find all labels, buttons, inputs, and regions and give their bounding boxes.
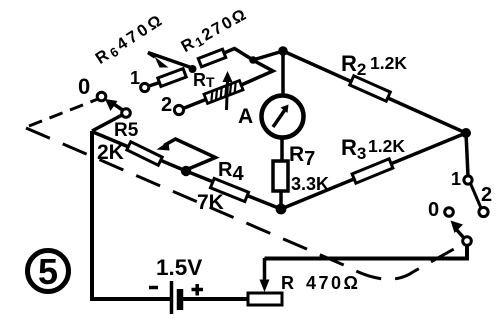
rheostat R wiper arrow bbox=[263, 258, 267, 283]
svg-text:R5: R5 bbox=[114, 120, 139, 141]
wire contact 1 to contact 2 bbox=[471, 184, 482, 209]
R5 wiper loop with arrow bbox=[164, 139, 216, 170]
resistor R5 body bbox=[127, 142, 162, 165]
battery BT 1.5V bbox=[172, 281, 181, 314]
node top (bridge corner) bbox=[278, 46, 288, 56]
svg-text:R2: R2 bbox=[341, 51, 366, 79]
resistor R4 body bbox=[210, 178, 248, 201]
svg-text:1.5V: 1.5V bbox=[156, 255, 202, 280]
svg-text:R3: R3 bbox=[341, 135, 366, 163]
node right (bridge corner) bbox=[461, 128, 471, 138]
rheostat R body bbox=[248, 293, 282, 305]
left switch contact 2 bbox=[174, 105, 183, 114]
thermistor RT body bbox=[204, 81, 243, 104]
resistor R6 body bbox=[158, 69, 186, 87]
wire battery plus to rheostat R bbox=[183, 297, 250, 301]
svg-text:0: 0 bbox=[428, 199, 439, 221]
node R6-R1 junction bbox=[189, 65, 197, 73]
svg-text:5: 5 bbox=[38, 251, 58, 292]
left switch S1 pivot bbox=[122, 109, 131, 118]
wire R wiper to right switch pivot bbox=[265, 246, 468, 259]
left switch S1 wiper arm bbox=[113, 104, 123, 111]
figure number 5 bbox=[28, 251, 69, 292]
resistor R2 body bbox=[350, 76, 391, 101]
right switch contact 1 bbox=[464, 176, 472, 184]
wire R5-R4 junction to bottom node bbox=[186, 171, 281, 209]
wire top node to meter bbox=[281, 51, 285, 94]
wire RT to R1-RT junction bbox=[240, 61, 273, 86]
wire R7 to bottom node bbox=[279, 191, 283, 206]
wire bottom node to right node bbox=[281, 133, 466, 209]
resistor R1 body bbox=[198, 49, 225, 67]
left switch contact 0 bbox=[97, 92, 106, 101]
node bottom (bridge corner) bbox=[276, 204, 287, 215]
right switch S2 pivot bbox=[463, 237, 472, 246]
svg-text:RT: RT bbox=[193, 70, 215, 90]
svg-text:1.2K: 1.2K bbox=[368, 136, 405, 156]
left switch contact 1 bbox=[141, 83, 149, 91]
svg-text:470Ω: 470Ω bbox=[306, 273, 360, 293]
resistor R7 body bbox=[273, 161, 288, 191]
dashed linkage curve to right switch pivot bbox=[26, 128, 461, 279]
RT adjust arrow bbox=[227, 81, 228, 110]
wire pivot to rail corner bbox=[92, 115, 122, 131]
svg-text:2: 2 bbox=[481, 184, 492, 206]
wire left rail (battery minus to left switch corner) bbox=[92, 131, 170, 299]
wire top node to right node bbox=[283, 51, 466, 133]
wire meter to R7 bbox=[280, 138, 284, 163]
wire rail corner to R5-R4 junction bbox=[93, 132, 186, 171]
wire contact 1 to R6 bbox=[149, 82, 161, 86]
svg-text:3.3K: 3.3K bbox=[291, 174, 329, 194]
wire right node to contact 1 bbox=[466, 133, 468, 176]
right switch contact 2 bbox=[479, 207, 488, 216]
svg-text:R: R bbox=[281, 273, 294, 293]
svg-text:R1270Ω: R1270Ω bbox=[178, 5, 251, 57]
svg-text:1: 1 bbox=[451, 169, 461, 189]
wire contact 2 to RT bbox=[183, 99, 207, 109]
node R5-R4 junction bbox=[181, 166, 191, 176]
svg-text:1: 1 bbox=[130, 68, 140, 88]
svg-text:R7: R7 bbox=[289, 143, 315, 170]
svg-text:A: A bbox=[238, 105, 253, 128]
resistor R3 body bbox=[352, 159, 393, 183]
svg-text:2: 2 bbox=[161, 94, 172, 116]
right switch contact 0 bbox=[445, 208, 454, 217]
svg-text:1.2K: 1.2K bbox=[370, 53, 407, 73]
svg-text:0: 0 bbox=[78, 74, 90, 99]
wire R1 to R1-RT junction bbox=[224, 49, 253, 61]
node R1-RT junction bbox=[249, 56, 257, 64]
meter A (galvanometer) bbox=[262, 96, 304, 138]
R6 wiper loop with arrow bbox=[148, 53, 191, 68]
wire R1-RT junction to top node bbox=[253, 51, 283, 60]
label battery minus bbox=[149, 286, 158, 290]
dashed linkage to left switch contact 0 bbox=[29, 99, 98, 126]
label battery plus bbox=[192, 284, 204, 296]
right switch S2 wiper arm bbox=[456, 229, 464, 238]
